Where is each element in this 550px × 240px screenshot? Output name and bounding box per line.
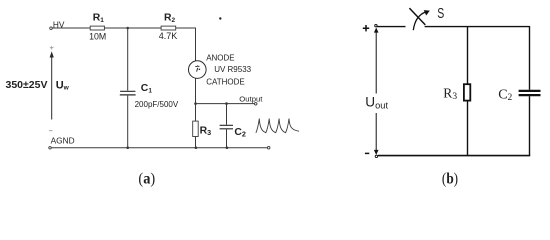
svg-text:AGND: AGND [51,136,75,146]
wire: b bottom rail [378,155,530,157]
terminal HV [50,27,53,30]
wire: tube to output node [195,78,197,103]
terminal AGND left [49,147,51,149]
wire: top rail HV to R1 [52,27,90,29]
wire: C1 branch upper [127,28,129,91]
voltage arrow Uw [51,57,53,120]
wire: switch to right corner [425,26,530,28]
wire: b top-left to switch [377,26,405,28]
resistor R3b [464,84,470,100]
output waveform [256,119,299,133]
node: junction top of C1 [126,27,129,30]
svg-text:R3: R3 [200,126,212,138]
wire: R3 branch upper [195,104,197,122]
node: bottom R3 [195,146,198,149]
capacitor C1 [120,91,136,95]
svg-text:(b): (b) [442,171,458,188]
plus mark [50,46,54,50]
svg-text:S: S [437,4,444,21]
minus mark [49,130,53,132]
wire: R3b branch upper [467,27,469,84]
svg-text:Uout: Uout [365,94,388,110]
wire: R1 to R2 [104,27,161,29]
svg-text:R3: R3 [443,85,457,102]
svg-text:10M: 10M [89,32,106,42]
svg-text:R2: R2 [164,13,176,24]
wire: C2 branch upper [226,104,228,125]
switch S blade [409,8,425,25]
svg-text:HV: HV [53,19,65,29]
plus mark b [363,25,369,31]
tube glyph [195,65,199,68]
node: bottom C2 [226,146,229,149]
wire: R3b branch lower [467,101,469,156]
svg-text:C2: C2 [498,87,512,103]
svg-text:ANODE: ANODE [206,54,234,63]
svg-text:UV R9533: UV R9533 [214,65,251,74]
wire: R2 to corner, down to tube [176,28,196,61]
wire: right branch upper [529,26,531,90]
wire: C1 branch lower [127,96,129,148]
resistor R1 [90,26,104,30]
stray dot [219,17,221,19]
switch arc arrow [413,12,426,30]
svg-text:C1: C1 [141,83,153,94]
svg-text:350±25V: 350±25V [6,79,48,91]
wire: AGND bottom rail [51,147,267,149]
wire: C2 branch lower [226,129,228,147]
minus mark b [365,152,369,154]
capacitor C2b [519,91,541,95]
voltage arrow Uout (double headed) [375,32,377,151]
wire: R3 branch lower [195,137,197,148]
terminal Output [254,103,257,106]
svg-text:Uw: Uw [56,79,70,91]
svg-text:4.7K: 4.7K [159,31,178,41]
svg-text:200pF/500V: 200pF/500V [135,100,179,109]
resistor R3 [193,121,199,136]
svg-text:(a): (a) [138,171,155,188]
node: bottom C1 [126,146,129,149]
terminal b bottom [375,155,377,157]
terminal b top [375,25,377,27]
node: R3/output junction [194,102,197,105]
terminal bottom right [267,146,270,149]
svg-text:C2: C2 [234,127,246,139]
wire: output rail [196,103,255,105]
resistor R2 [161,26,176,30]
capacitor C2 [220,125,233,129]
svg-text:Output: Output [239,95,263,104]
tube U1 (UV R9533) [189,61,207,79]
node: C2 junction [225,102,228,105]
svg-text:CATHODE: CATHODE [206,77,245,86]
svg-text:R1: R1 [93,13,105,24]
wire: right branch lower [529,96,531,155]
